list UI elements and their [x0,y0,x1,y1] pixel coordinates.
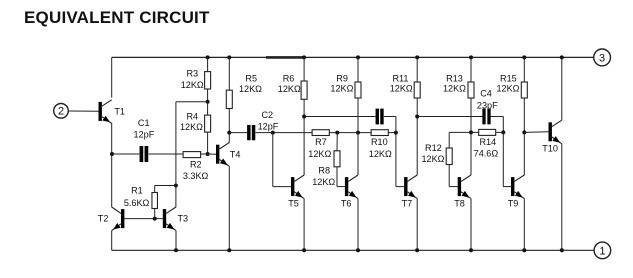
node 1 terminal [594,242,611,259]
junction [560,248,564,252]
junction [110,152,114,156]
node 2 terminal [54,104,69,119]
junction [356,55,360,59]
transistor T6 [345,175,358,199]
resistor R8 [334,133,345,187]
resistor R3 [205,57,211,101]
label C1 [134,118,155,139]
label R9 [330,73,353,93]
wire [255,132,312,134]
label R10 [369,137,392,159]
resistor R9 [355,57,361,175]
svg-text:12KΩ: 12KΩ [330,84,353,94]
svg-text:12KΩ: 12KΩ [497,84,520,94]
junction [415,115,419,119]
svg-text:12KΩ: 12KΩ [369,149,392,159]
junction [394,131,398,135]
wire T8 emitter [470,199,472,251]
transistor T3 [163,207,176,231]
resistor R2 [183,152,201,158]
junction [560,55,564,59]
junction [302,115,306,119]
svg-text:R12: R12 [425,143,442,153]
svg-text:T3: T3 [177,213,188,223]
svg-text:12KΩ: 12KΩ [390,84,413,94]
svg-text:EQUIVALENT CIRCUIT: EQUIVALENT CIRCUIT [24,8,210,27]
junction [522,248,526,252]
svg-text:T4: T4 [230,149,241,159]
capacitor C3 [376,109,384,125]
svg-text:74.6Ω: 74.6Ω [474,148,499,158]
svg-text:T9: T9 [508,198,519,208]
title [24,8,210,27]
svg-text:12KΩ: 12KΩ [180,122,203,132]
junction [174,184,178,188]
label R1 [124,185,150,208]
svg-text:5.6KΩ: 5.6KΩ [124,198,150,208]
wire T10 emitter [561,144,563,251]
junction [415,55,419,59]
svg-text:R2: R2 [190,160,202,170]
wire T4 collector [228,133,230,143]
wire R3 node to T3 collector [175,102,177,207]
resistor R14 [471,129,503,135]
node 3 terminal [594,49,611,66]
svg-text:12KΩ: 12KΩ [181,80,204,90]
svg-text:R3: R3 [186,68,198,78]
wire T5 base [273,133,291,187]
wire [491,117,504,133]
wire T4 emitter [228,166,230,250]
svg-text:R15: R15 [500,73,517,83]
junction [469,55,473,59]
label R3 [181,68,204,90]
junction [153,217,157,221]
junction [522,130,526,134]
svg-text:R9: R9 [336,73,348,83]
transistor T8 [458,175,471,199]
svg-text:C1: C1 [138,118,150,128]
wire [417,116,482,118]
junction [469,130,473,134]
capacitor C2 [247,125,255,140]
wire [229,132,247,134]
wire T7 base [396,133,404,187]
transistor T7 [404,175,417,199]
junction [227,248,231,252]
junction [469,248,473,252]
wire T1 emitter to T2 collector [111,123,113,207]
label T3 [177,213,188,223]
resistor R12 [446,132,471,186]
resistor R4 [205,102,211,154]
junction [174,248,178,252]
label R14 [474,137,499,159]
wire bottom rail [112,249,594,251]
wire [176,101,208,103]
label R15 [497,73,520,93]
wire [329,132,371,134]
wire [112,153,139,155]
svg-text:T5: T5 [288,198,299,208]
wire [68,110,98,112]
wire T10 collector [561,57,563,120]
label T7 [402,198,413,208]
resistor R5 [226,57,232,132]
wire T2-T3 base [124,218,163,220]
transistor T10 [549,120,562,144]
resistor R15 [521,57,527,175]
transistor T4 [216,143,229,167]
svg-text:T2: T2 [98,213,109,223]
svg-text:R13: R13 [446,73,463,83]
transistor T1 [99,100,112,124]
svg-text:T10: T10 [542,144,558,154]
transistor T5 [291,175,304,199]
junction [206,55,210,59]
svg-text:C4: C4 [480,89,492,99]
wire T3 emitter [175,231,177,251]
junction [206,152,210,156]
label C2 [258,110,279,132]
wire top rail [112,56,594,58]
label T5 [288,198,299,208]
svg-text:12KΩ: 12KΩ [278,84,301,94]
transistor T9 [511,175,524,199]
svg-text:R10: R10 [371,137,388,147]
junction [522,55,526,59]
svg-text:R6: R6 [283,73,295,83]
svg-text:12KΩ: 12KΩ [308,149,331,159]
resistor R7 [312,130,329,136]
resistor R1 [152,186,176,219]
resistor R6 [301,57,307,175]
label R11 [390,73,413,93]
svg-text:3.3KΩ: 3.3KΩ [183,171,209,181]
resistor R10 [371,130,388,136]
capacitor C4 [482,109,490,125]
wire [201,153,217,155]
svg-text:12KΩ: 12KΩ [239,84,262,94]
svg-text:12KΩ: 12KΩ [443,84,466,94]
junction [356,131,360,135]
label T9 [508,198,519,208]
wire [384,117,396,133]
svg-text:R14: R14 [479,137,496,147]
label T6 [341,198,352,208]
resistor R11 [414,57,420,175]
wire T7 emitter [416,199,418,251]
capacitor C1 [140,146,149,162]
wire [304,116,375,118]
junction [227,55,231,59]
svg-text:12pF: 12pF [134,130,155,140]
junction [415,248,419,252]
svg-text:R7: R7 [315,137,327,147]
junction [356,248,360,252]
label R12 [422,143,445,164]
svg-text:C2: C2 [261,110,273,120]
svg-text:12KΩ: 12KΩ [422,154,445,164]
svg-text:R5: R5 [245,73,257,83]
wire T9 emitter [523,199,525,251]
label T4 [230,149,241,159]
transistor T2 [112,207,125,231]
wire T5 emitter [303,199,305,251]
label T10 [542,144,558,154]
svg-text:T6: T6 [341,198,352,208]
svg-text:12pF: 12pF [258,122,279,132]
svg-text:R8: R8 [318,165,330,175]
wire T1 collector [111,57,113,97]
svg-text:T8: T8 [454,198,465,208]
svg-text:R1: R1 [131,185,143,195]
svg-text:R4: R4 [186,112,198,122]
wire T9 base [503,132,511,186]
label R5 [239,73,262,94]
junction [335,131,339,135]
wire top rail thick segment [266,56,304,59]
svg-text:1: 1 [599,245,605,257]
label R8 [312,165,335,186]
label T2 [98,213,109,223]
junction [302,55,306,59]
label R7 [308,137,331,159]
svg-text:R11: R11 [392,73,408,83]
junction [302,248,306,252]
label R4 [180,112,203,132]
svg-text:T1: T1 [114,107,125,117]
svg-text:3: 3 [599,52,605,64]
svg-text:23pF: 23pF [477,100,498,110]
label C4 [477,89,498,111]
junction [227,131,231,135]
label R2 [183,160,209,181]
wire T10 base [524,131,548,134]
label R13 [443,73,466,93]
junction [501,130,505,134]
svg-text:12KΩ: 12KΩ [312,177,335,187]
junction [206,100,210,104]
wire [149,153,184,155]
junction [271,131,275,135]
label T8 [454,198,465,208]
svg-text:2: 2 [58,106,64,118]
label R6 [278,73,301,94]
wire [388,132,396,134]
wire T2 emitter [111,231,113,251]
wire T6 emitter [357,199,359,251]
resistor R13 [468,57,474,175]
svg-text:T7: T7 [402,198,413,208]
label T1 [114,107,125,117]
